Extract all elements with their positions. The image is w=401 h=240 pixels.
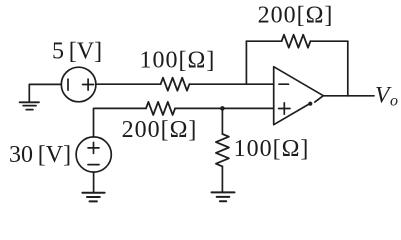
svg-text:o: o [390,93,398,110]
wire: R4 to bottom ground [221,166,223,191]
svg-text:100[Ω]: 100[Ω] [139,47,215,73]
ground (bottom-middle, at R4) [212,192,235,201]
V2 plus mark [88,142,99,153]
op-amp minus input symbol [279,83,289,85]
node A junction dot on plus line [220,106,225,111]
wire: feedback top right lead [310,40,347,42]
voltage source V1 5[V] [61,67,96,102]
svg-text:5 [V]: 5 [V] [52,39,102,65]
wire: op-amp output [323,95,374,97]
resistor R2 200[ohm] feedback [282,35,311,48]
svg-text:200[Ω]: 200[Ω] [258,3,334,29]
resistor R4 100[ohm] vertical [216,134,229,166]
V2 minus mark [88,164,99,166]
voltage source V2 30[V] [76,137,111,172]
svg-text:30 [V]: 30 [V] [9,142,71,168]
wire: 30V riser and plus line to resistor R3 [94,108,147,136]
wire: V2 bottom to ground [93,172,95,192]
wire: R3 to op-amp plus input [175,107,274,109]
wire: feedback top left lead [246,40,281,42]
op-amp plus input symbol [279,103,290,114]
wire: feedback tap up from minus line [245,41,247,84]
wire: R1 to op-amp minus input [189,83,273,85]
wire: V1 to resistor R1 [96,83,161,85]
op-amp U1 triangle [274,67,324,125]
ground (bottom-left, at 30V source) [82,193,104,202]
svg-text:200[Ω]: 200[Ω] [122,117,198,143]
resistor R1 100[ohm] horizontal [161,78,190,91]
wire: 5V source left lead to ground corner [29,84,61,101]
svg-text:100[Ω]: 100[Ω] [234,136,310,162]
op-amp hypotenuse dot [308,102,312,106]
V1 minus mark (rotated) [67,79,69,90]
wire: feedback right vertical down to output [347,41,349,96]
resistor R3 200[ohm] horizontal [146,102,175,115]
wire: junction down to resistor R4 [221,108,223,134]
V1 plus mark [83,79,94,90]
ground (top-left, at 5V source) [20,102,39,109]
